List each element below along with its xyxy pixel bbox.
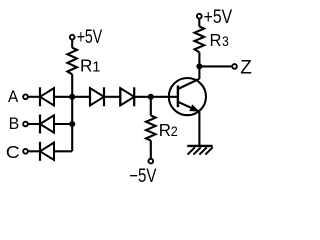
- node C input terminal: [23, 149, 28, 154]
- junction dot (A row / bus): [69, 94, 75, 100]
- junction dot (B row / bus): [69, 121, 75, 127]
- resistor R1: [67, 48, 77, 75]
- svg-text:R: R: [80, 56, 93, 76]
- wire (to Z): [199, 65, 231, 67]
- junction dot (R2 tap): [148, 94, 154, 100]
- svg-text:+5V: +5V: [204, 6, 233, 28]
- wire: [29, 150, 40, 152]
- wire: [104, 96, 120, 98]
- wire: [54, 150, 72, 152]
- wire: [134, 96, 151, 98]
- svg-text:R: R: [159, 121, 171, 140]
- junction dot (collector node): [196, 63, 202, 69]
- diode D2 (input B): [40, 115, 54, 134]
- resistor R2: [146, 116, 156, 141]
- wire (R2 top lead): [150, 97, 152, 116]
- resistor R3: [195, 26, 205, 52]
- wire: [54, 96, 72, 98]
- svg-text:+5V: +5V: [77, 27, 103, 48]
- wire (emitter down): [198, 112, 200, 145]
- svg-text:−5V: −5V: [129, 166, 157, 187]
- node A input terminal: [23, 94, 28, 99]
- wire (bus): [71, 74, 73, 151]
- svg-text:Z: Z: [240, 58, 252, 79]
- svg-text:B: B: [9, 114, 20, 133]
- wire: [54, 123, 72, 125]
- diode D4 (series): [90, 87, 104, 106]
- wire (R2 bottom lead): [150, 141, 152, 159]
- node B input terminal: [23, 122, 28, 127]
- terminal +5V (left): [70, 35, 75, 40]
- diode D5 (series): [120, 87, 134, 106]
- svg-text:R: R: [210, 30, 222, 50]
- wire (R3 top lead): [198, 19, 200, 26]
- wire: [29, 96, 40, 98]
- terminal Z: [232, 64, 237, 69]
- wire (collector up): [198, 66, 200, 78]
- diode D3 (input C): [40, 142, 54, 161]
- wire: [72, 96, 90, 98]
- svg-text:3: 3: [222, 34, 229, 50]
- svg-text:1: 1: [92, 59, 100, 75]
- transistor Q1: [169, 78, 206, 115]
- svg-text:2: 2: [171, 124, 178, 139]
- terminal -5V: [148, 159, 153, 164]
- ground: [187, 146, 213, 155]
- wire: [29, 123, 40, 125]
- svg-text:A: A: [8, 87, 19, 106]
- wire (to base): [151, 96, 178, 98]
- wire: [71, 40, 73, 48]
- diode D1 (input A): [40, 87, 54, 106]
- svg-text:C: C: [6, 142, 20, 162]
- wire (R3 bottom lead): [198, 52, 200, 66]
- terminal +5V (right): [197, 14, 202, 19]
